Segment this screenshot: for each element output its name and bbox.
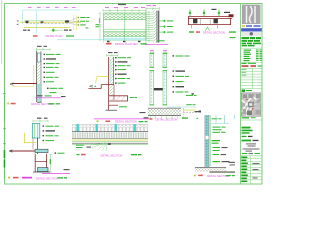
level marks right (229, 162, 236, 163)
svg-text:DETAIL SECTION: DETAIL SECTION (156, 118, 178, 122)
revision table grid (241, 68, 263, 88)
wall strip B (162, 53, 167, 105)
mid divider (124, 13, 126, 40)
top hatched wall band (104, 13, 146, 20)
bottom plate (106, 109, 118, 111)
top dim text (108, 52, 113, 53)
note rows (44, 54, 61, 83)
svg-text:DETAIL SECTION: DETAIL SECTION (207, 174, 229, 178)
gray dashes (183, 111, 200, 113)
leader lines to notes (69, 18, 77, 25)
svg-text:DETAIL SECTION: DETAIL SECTION (115, 120, 137, 124)
notes (76, 145, 84, 146)
plan body frame (104, 13, 147, 40)
left border vertical annotations (4, 96, 5, 122)
wall column (37, 51, 42, 102)
note rows (173, 55, 190, 92)
leaders (90, 143, 107, 151)
label row (194, 174, 235, 178)
ground hatch band (195, 167, 226, 171)
right vertical dim (49, 155, 52, 173)
step (89, 85, 115, 89)
cyan posts (77, 124, 136, 132)
yellow flashing (24, 133, 36, 143)
magenta base line (145, 44, 168, 46)
below dashes (151, 116, 178, 118)
top dim text (37, 46, 42, 47)
lintel channel (188, 17, 234, 25)
break triangle (205, 27, 209, 31)
cyan sill lines (104, 38, 147, 40)
red info row (242, 65, 249, 67)
blue band (241, 28, 262, 31)
overall dim text (118, 4, 126, 5)
ceiling line + hangers (211, 123, 229, 125)
yellow flashing (12, 65, 34, 87)
yellow extension lines (73, 15, 76, 30)
dim texts magenta (105, 7, 145, 8)
lower line (109, 104, 118, 106)
label row (149, 117, 188, 121)
dim text black (212, 9, 217, 10)
label row (7, 102, 60, 106)
tick markers row (86, 27, 89, 28)
wall strip (205, 115, 210, 167)
top dim line (37, 48, 51, 51)
svg-text:DETAIL PLAN SEC: DETAIL PLAN SEC (115, 42, 138, 46)
detail plan label (33, 34, 74, 38)
lower note rows (47, 88, 49, 89)
label row (8, 176, 67, 180)
black text under strip (23, 30, 27, 31)
corrugated deck band (72, 125, 148, 132)
dark info row (241, 61, 263, 63)
louver box (32, 124, 40, 139)
ticks below (191, 25, 193, 29)
slab (109, 96, 128, 101)
top dim line (103, 9, 146, 12)
right finish line (113, 85, 115, 100)
lower wall (34, 154, 36, 172)
plan strip lines (24, 20, 70, 22)
layers (72, 139, 148, 141)
extra note (230, 37, 236, 38)
deck top/bottom lines (72, 131, 148, 133)
note rows (43, 125, 60, 141)
dim text row (28, 7, 76, 8)
cyan slab (35, 149, 48, 152)
wall column with courses (146, 11, 159, 43)
slab note (130, 97, 134, 98)
level text (195, 111, 200, 112)
level mark (64, 169, 70, 170)
annotation arrows (159, 20, 173, 34)
svg-text:DETAIL SECTION: DETAIL SECTION (101, 153, 123, 157)
bottom cyan footer (38, 168, 49, 172)
top dim line (107, 54, 118, 57)
wall below box (32, 138, 34, 149)
gap tie (154, 88, 163, 90)
location map (241, 93, 261, 117)
cyan drop line (36, 10, 38, 34)
yellow line (183, 109, 195, 111)
map caption (242, 117, 250, 118)
green diamond marker (52, 28, 56, 32)
svg-text:DETAIL SECTION: DETAIL SECTION (203, 30, 225, 34)
top dim line (146, 7, 159, 10)
note above ceiling (212, 118, 218, 119)
label row (77, 153, 142, 157)
top dims (150, 50, 154, 51)
top-left blob (199, 111, 202, 113)
magenta cut line (36, 97, 62, 99)
mullion blocks (26, 21, 29, 23)
sheet border frame (5, 4, 263, 185)
client row (242, 140, 252, 142)
sub dimension row (55, 29, 63, 31)
outer trim line left (1, 0, 3, 64)
sheet background (0, 0, 265, 187)
base label green (157, 40, 165, 41)
top dim (37, 118, 42, 119)
svg-text:DETAIL SECTION: DETAIL SECTION (36, 176, 58, 180)
cyan topping (167, 106, 197, 108)
label row (97, 120, 148, 124)
magenta cut line (94, 118, 149, 120)
insulation band (72, 132, 148, 138)
inner anchor blocks (193, 19, 197, 24)
floor step (11, 150, 38, 152)
arrow (10, 83, 14, 86)
note (55, 152, 57, 153)
consultant rows (dark centered) (246, 143, 256, 144)
floor line (12, 83, 37, 85)
detail plan section label (106, 42, 147, 46)
pre-label texts (37, 95, 43, 96)
dark base strip (210, 171, 236, 173)
wall strip A (149, 53, 154, 105)
wall column (109, 57, 114, 110)
green anchor markers (190, 10, 219, 17)
upper notes (192, 93, 194, 95)
dim arrows left (17, 20, 19, 25)
yellow eave line (96, 77, 109, 83)
lower table left labels (241, 157, 248, 183)
firm name rows (242, 37, 262, 46)
detail section label (189, 30, 236, 34)
small marks below (107, 41, 110, 42)
key plan marker (242, 90, 246, 92)
long cyan line to the left (57, 40, 104, 43)
dim text (147, 5, 152, 6)
info rows with right column (244, 50, 262, 62)
note rows (115, 57, 131, 84)
lower table grid (241, 156, 263, 184)
svg-text:DETAIL PLAN: DETAIL PLAN (46, 34, 63, 38)
logo (242, 5, 261, 25)
note rows (212, 127, 230, 163)
hatched slab band (148, 108, 181, 116)
lower table right values (253, 163, 260, 164)
emblem strip (241, 32, 262, 37)
lower band lines (104, 28, 147, 30)
project title rows (242, 127, 253, 138)
magenta cut (42, 172, 70, 174)
logo caption strip (241, 24, 262, 28)
level text (140, 112, 146, 113)
note rows (78, 17, 90, 26)
cyan grid line top (23, 10, 81, 24)
title block left border (240, 4, 242, 185)
left dim line (99, 13, 102, 40)
